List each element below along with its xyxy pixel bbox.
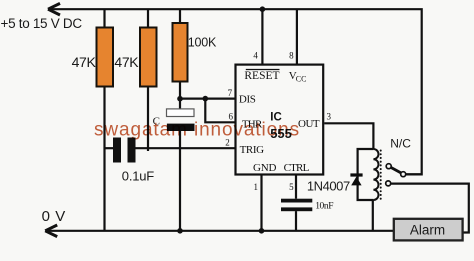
svg-text:7: 7 [228,88,233,98]
svg-text:Alarm: Alarm [410,222,445,237]
svg-text:N/C: N/C [390,136,411,150]
svg-text:swagatam innovations: swagatam innovations [94,119,300,140]
svg-text:+5 to 15 V DC: +5 to 15 V DC [1,16,83,31]
svg-text:3: 3 [327,111,332,121]
svg-text:GND: GND [253,162,276,174]
svg-text:5: 5 [289,182,294,192]
svg-text:0 V: 0 V [42,208,66,225]
svg-text:4: 4 [253,50,258,60]
svg-text:1: 1 [254,182,259,192]
svg-text:47K: 47K [72,54,97,70]
svg-text:8: 8 [289,50,294,60]
svg-text:DIS: DIS [239,94,256,106]
svg-text:10nF: 10nF [315,201,333,211]
svg-text:100K: 100K [188,35,217,49]
svg-text:CTRL: CTRL [284,162,310,174]
svg-text:1N4007: 1N4007 [307,178,350,193]
svg-text:0.1uF: 0.1uF [122,169,155,184]
svg-text:OUT: OUT [298,118,320,130]
svg-text:CC: CC [296,74,307,83]
svg-text:TRIG: TRIG [240,144,265,156]
svg-text:47K: 47K [114,54,139,70]
svg-text:RESET: RESET [244,70,279,82]
